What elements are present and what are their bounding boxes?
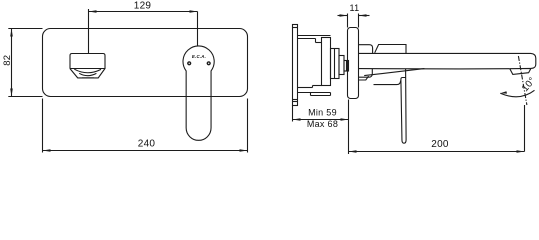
svg-text:11: 11 [350, 3, 360, 13]
svg-text:E.C.A.: E.C.A. [192, 54, 206, 59]
svg-text:82: 82 [2, 55, 13, 66]
svg-text:200: 200 [431, 139, 449, 150]
svg-text:240: 240 [138, 139, 156, 150]
svg-text:Min 59: Min 59 [308, 108, 337, 118]
svg-text:Max 68: Max 68 [307, 119, 338, 129]
svg-text:129: 129 [134, 1, 152, 12]
